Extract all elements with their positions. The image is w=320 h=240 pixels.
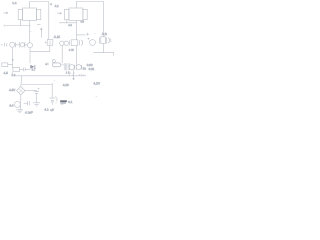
- junction blob: [73, 78, 75, 80]
- transistor Q6 circle: [76, 65, 81, 70]
- capacitor C3 plates: [74, 65, 76, 70]
- svg-text:4.1: 4.1: [55, 4, 60, 8]
- bridge BR1 diamond: [17, 86, 25, 94]
- crystal X2 box: [71, 40, 78, 46]
- oscillator G right tick: [110, 38, 112, 42]
- wire R2 to C1: [19, 68, 23, 70]
- wire y=25.5 under T1: [5, 25, 31, 27]
- transformer T1 left winding box: [18, 9, 22, 19]
- svg-text:0.01: 0.01: [89, 67, 95, 71]
- bar right of Q6: [81, 65, 83, 70]
- transistor Q4 circle: [90, 40, 96, 46]
- diode below C6: [51, 102, 53, 104]
- svg-text:uF: uF: [50, 108, 54, 112]
- bus B right tick: [51, 83, 53, 85]
- plus mark C5: [38, 88, 40, 90]
- transistor Q3b circle: [64, 41, 68, 45]
- svg-text:1k: 1k: [83, 66, 87, 70]
- transistor Q1 bar: [14, 42, 16, 47]
- svg-text:A.M: A.M: [54, 35, 60, 39]
- node plus mark: [86, 33, 89, 36]
- input terminal dot: [1, 44, 2, 45]
- wire tee y=52.6: [93, 53, 113, 56]
- svg-text:1 k: 1 k: [66, 71, 70, 74]
- faint dot bottom right: [96, 96, 97, 97]
- svg-text:A.B: A.B: [102, 32, 107, 36]
- resistor R2 box: [13, 67, 20, 71]
- mixer U1 inner bar: [49, 41, 51, 45]
- transistor Q1 circle: [10, 42, 15, 47]
- oscillator G right arc: [108, 38, 109, 43]
- transistor Q2 circle: [28, 43, 33, 48]
- terminal tick left end: [3, 25, 5, 27]
- transformer T1 left winding lead: [19, 20, 21, 26]
- wire K1 right lead: [61, 64, 64, 66]
- diode D1 triangle: [30, 65, 34, 69]
- wire diamond bottom: [20, 95, 22, 101]
- svg-text:4.2V: 4.2V: [93, 81, 100, 85]
- wire node vertical from Q1: [12, 48, 14, 69]
- wire T2 bottom lead: [76, 21, 78, 40]
- battery BT1 dark plate: [60, 100, 67, 102]
- ground GND2: [33, 103, 40, 106]
- svg-text:4: 4: [50, 3, 52, 6]
- wire y=22.8 under T2: [59, 22, 77, 24]
- small marks cluster: [55, 97, 57, 103]
- transformer T2 core box: [69, 8, 83, 21]
- crystal X1 plates: [19, 42, 21, 48]
- battery BT1 dots below: [61, 104, 64, 106]
- wire diamond right to C5: [25, 90, 37, 92]
- input bar: [4, 43, 6, 46]
- svg-text:4.5: 4.5: [80, 21, 84, 24]
- transformer T2 left winding lead: [66, 20, 68, 23]
- crystal X2 right arc: [81, 40, 82, 46]
- wire Q7 to C4: [24, 102, 28, 104]
- transistor Q3 circle: [60, 41, 64, 45]
- wire C5 down: [36, 93, 38, 102]
- battery BT1 lower plate: [60, 102, 66, 103]
- wire Q7 to ground: [19, 108, 21, 110]
- input arc: [6, 43, 9, 46]
- wire rail x=50 down: [48, 2, 50, 40]
- capacitor C2 small circle: [52, 60, 55, 63]
- crystal X1 circle: [20, 43, 24, 47]
- capacitor C5 plates: [34, 92, 39, 94]
- transformer T1 core box: [23, 8, 37, 21]
- crystal X2 right plate: [78, 40, 80, 45]
- wire mixer down: [49, 45, 51, 51]
- wire Q2 down rail: [29, 48, 31, 64]
- connector ticks at bus end: [80, 74, 84, 76]
- oscillator G box: [101, 37, 106, 44]
- bus wire B: [22, 84, 53, 86]
- relay K1 oval box: [52, 63, 60, 67]
- mixer U1 plus tick: [45, 41, 47, 43]
- transistor Q7 bar: [19, 101, 21, 108]
- wire X1 to Q2: [25, 44, 28, 46]
- oscillator G left plate: [99, 37, 101, 43]
- mixer U1 box: [47, 40, 53, 46]
- wire top bus left (T1 top to rail x=50): [30, 2, 49, 9]
- tick on T1 lead: [30, 31, 31, 33]
- wire y=34.9 right branch: [77, 34, 86, 36]
- wire top bus right (T2 top to rail x=103.5): [77, 2, 104, 9]
- wire C5 top lead: [36, 91, 38, 92]
- transformer T2 right winding box: [83, 9, 87, 19]
- transistor Q5 circle: [69, 65, 74, 70]
- svg-text:4 W: 4 W: [69, 48, 74, 52]
- svg-text:4.5: 4.5: [4, 71, 9, 75]
- tick right of T1 wire: [37, 23, 41, 25]
- oscillator G right plate: [106, 37, 108, 43]
- wire y=51.6 mixer to Q2 rail: [30, 51, 50, 53]
- svg-text:4.8V: 4.8V: [9, 88, 16, 92]
- wire R1 to node: [8, 64, 13, 66]
- resistor R3 bars: [64, 63, 69, 70]
- svg-text:4.1: 4.1: [44, 108, 49, 112]
- svg-text:4.2: 4.2: [68, 24, 72, 27]
- component bar right of C6: [56, 97, 58, 101]
- svg-text:0.1: 0.1: [68, 100, 73, 104]
- wire rail below G: [103, 43, 105, 52]
- wire chain to bus A: [11, 72, 13, 76]
- wire rail x=103.5 down: [103, 2, 105, 37]
- transformer T1 tuning arrow: [4, 12, 8, 14]
- svg-text:4.4: 4.4: [9, 104, 14, 108]
- transformer T2 tuning arrow: [57, 12, 61, 14]
- svg-text:4 l: 4 l: [45, 62, 48, 66]
- svg-text:4.20: 4.20: [63, 83, 69, 87]
- arrow vertical adjust mark: [40, 28, 42, 38]
- wire Q3 down: [61, 46, 63, 64]
- node plus mark 2: [87, 38, 89, 40]
- capacitor C6 plates: [50, 98, 56, 101]
- capacitor C1 plates: [22, 68, 24, 72]
- wire C1 to Q2 rail: [25, 68, 30, 70]
- wire diamond top: [20, 76, 23, 87]
- wire T2 lead down to chain: [76, 46, 78, 65]
- transistor Q7 circle: [15, 102, 21, 108]
- resistor R1 box left edge: [2, 63, 8, 67]
- junction dot: [12, 59, 14, 61]
- svg-text:4 1uF: 4 1uF: [25, 111, 33, 115]
- transformer T1 right winding box: [37, 9, 41, 19]
- diode D1 bar: [34, 65, 36, 69]
- ground GND1: [16, 110, 23, 113]
- lead below diode: [51, 103, 53, 105]
- wire bus B end down: [51, 85, 53, 99]
- wire T1 bottom lead: [29, 21, 31, 43]
- faint dot left of battery area: [54, 80, 55, 81]
- bus wire A: [12, 75, 86, 77]
- transformer T2 left winding box: [65, 9, 69, 19]
- wire Q5 down: [73, 70, 75, 80]
- wire Q1 to X1: [15, 44, 19, 46]
- svg-text:1.4: 1.4: [12, 1, 17, 5]
- capacitor C4 plates: [27, 101, 29, 105]
- bridge BR1 cross: [19, 89, 23, 93]
- tiny mark left of G: [94, 33, 95, 34]
- switch marks on bus: [69, 72, 75, 75]
- crystal X2 left plate: [69, 40, 71, 45]
